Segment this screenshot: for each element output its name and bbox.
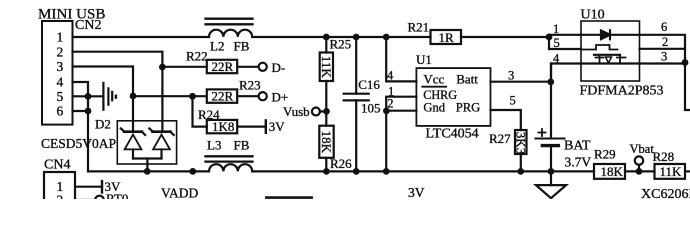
- svg-text:L2: L2: [210, 39, 224, 54]
- power 3V bar (R24): [265, 120, 267, 132]
- diode D2 CESD5V0AP box: [117, 121, 176, 164]
- U10 body diode row: [581, 34, 601, 36]
- wire R21 to U10: [461, 36, 549, 38]
- U1 pin 2 Gnd: [386, 110, 416, 112]
- transistor U10 FDFMA2P853 box: [581, 21, 640, 81]
- svg-text:18K: 18K: [601, 164, 624, 179]
- wire R26 to rail: [325, 158, 327, 172]
- svg-text:BAT: BAT: [564, 139, 591, 154]
- connector CN4: [44, 172, 75, 206]
- wire R23 feed: [133, 95, 207, 97]
- D2 anode join and tap: [133, 157, 162, 159]
- svg-text:1K8: 1K8: [212, 119, 234, 134]
- node D-: [259, 63, 267, 71]
- svg-text:FDFMA2P853: FDFMA2P853: [580, 84, 664, 99]
- wire pin5 CN2: [73, 95, 89, 97]
- svg-text:2: 2: [57, 193, 64, 199]
- svg-text:18K: 18K: [319, 131, 334, 154]
- svg-text:U10: U10: [581, 7, 605, 22]
- node D+: [259, 92, 267, 100]
- svg-text:22R: 22R: [212, 88, 234, 103]
- junction R24 feed: [189, 93, 196, 100]
- D2 left anode lead: [132, 149, 134, 158]
- svg-text:3: 3: [661, 49, 667, 63]
- junction U1 Batt / battery column: [547, 79, 554, 86]
- junction D+ feed: [130, 93, 137, 100]
- svg-text:1R: 1R: [439, 30, 455, 45]
- U1 pin 1 CHRG: [386, 97, 416, 111]
- junction D- feed: [159, 64, 166, 71]
- svg-text:D2: D2: [95, 117, 111, 132]
- svg-text:2: 2: [57, 44, 64, 59]
- junction rail L3: [189, 168, 196, 175]
- svg-text:R22: R22: [186, 49, 208, 64]
- resistor R27 3K3: [515, 130, 527, 154]
- ground symbol (rotated): [102, 82, 104, 111]
- svg-text:3: 3: [57, 59, 64, 74]
- U10 bottom row: [581, 62, 640, 64]
- svg-text:5: 5: [57, 89, 64, 104]
- U10 body arrow: [606, 57, 612, 63]
- svg-text:3V: 3V: [269, 119, 286, 134]
- op-amp U1 LTC4054 box: [416, 68, 490, 126]
- U10 right column down: [685, 63, 690, 111]
- svg-text:L3: L3: [207, 137, 221, 152]
- U10 drain contact: [619, 55, 621, 64]
- svg-text:LTC4054: LTC4054: [426, 126, 479, 141]
- svg-text:2: 2: [387, 96, 393, 110]
- wire ground stub: [88, 95, 103, 97]
- wire R27 to rail: [520, 154, 522, 171]
- U10 pin2 stub: [640, 48, 686, 50]
- wire Vusb stub: [320, 110, 326, 112]
- svg-text:FB: FB: [234, 39, 250, 54]
- svg-text:D+: D+: [272, 90, 289, 105]
- junction Vusb divider: [323, 108, 330, 115]
- svg-text:R27: R27: [489, 131, 511, 146]
- wire top rail to R21: [252, 36, 430, 38]
- wire pin6 CN2: [73, 110, 89, 112]
- svg-text:R21: R21: [408, 20, 430, 35]
- svg-text:5: 5: [554, 36, 560, 50]
- battery BAT 3.7V: [550, 64, 552, 139]
- node Vusb: [312, 108, 320, 116]
- junction CN2 pin5: [85, 93, 92, 100]
- svg-text:4: 4: [553, 51, 560, 65]
- svg-text:RT0: RT0: [106, 191, 128, 199]
- node Vbat: [635, 156, 643, 164]
- wire R29 to Vbat node: [625, 170, 655, 172]
- junction U1 Gnd/CHRG: [383, 108, 390, 115]
- wire D2 left cathode: [132, 96, 134, 132]
- wire R28 to edge: [685, 170, 690, 172]
- junction rail R27: [517, 168, 524, 175]
- capacitor C16 105: [355, 37, 357, 94]
- junction rail R26: [323, 168, 330, 175]
- resistor R22 22R: [207, 60, 237, 73]
- U10 source contact: [599, 55, 601, 64]
- U1 pin 4 Vcc: [386, 37, 416, 81]
- ground (triangle under battery): [550, 171, 552, 185]
- svg-text:Batt: Batt: [456, 71, 478, 86]
- connector CN2 MINI USB: [42, 21, 73, 125]
- svg-text:105: 105: [361, 101, 381, 116]
- resistor R24 1K8: [193, 96, 207, 126]
- svg-text:3: 3: [508, 68, 514, 82]
- D2 right diode: [153, 130, 171, 133]
- junction rail Vbat: [636, 168, 643, 175]
- node RT0: [95, 196, 104, 205]
- junction rail battery: [548, 168, 555, 175]
- U10 gate row: [581, 45, 618, 50]
- wire pin4 CN2: [73, 82, 89, 96]
- svg-text:Vbat: Vbat: [630, 142, 655, 156]
- svg-text:C16: C16: [358, 77, 380, 92]
- wire R25 to Vusb node: [325, 81, 327, 112]
- U1 pin 5 PRG: [491, 110, 521, 130]
- svg-text:CESD5V0AP: CESD5V0AP: [41, 136, 116, 151]
- U1 pin 3 Batt: [491, 81, 552, 83]
- U10 pin5 stub: [549, 48, 581, 50]
- junction rail C16: [353, 168, 360, 175]
- resistor R28 11K: [655, 164, 686, 179]
- resistor R23 22R: [207, 89, 237, 102]
- svg-text:11K: 11K: [319, 56, 334, 79]
- svg-text:1: 1: [57, 30, 64, 45]
- U10 pin3 stub: [640, 62, 686, 64]
- svg-text:6: 6: [57, 104, 64, 119]
- svg-text:4: 4: [387, 68, 394, 82]
- resistor R21 1R: [431, 30, 462, 44]
- svg-text:R28: R28: [653, 149, 675, 164]
- wire Vbat stub: [638, 165, 640, 169]
- svg-text:Vcc: Vcc: [423, 71, 444, 86]
- svg-text:U1: U1: [416, 52, 432, 67]
- D2 right anode lead: [160, 149, 162, 158]
- D2 left diode: [124, 130, 142, 133]
- resistor R26 18K: [325, 112, 327, 126]
- svg-text:XC6206P: XC6206P: [641, 187, 690, 199]
- svg-text:Vusb: Vusb: [283, 104, 310, 119]
- box edge (cropped component, bottom center): [266, 196, 311, 199]
- wire pin1 CN2 to L2: [73, 36, 210, 38]
- U1 CHRG overline: [422, 86, 446, 88]
- svg-text:R25: R25: [330, 36, 352, 51]
- U10 channel bar: [594, 54, 620, 56]
- junction top rail U1 Vcc: [383, 34, 390, 41]
- svg-text:VADD: VADD: [161, 185, 199, 199]
- svg-text:CN4: CN4: [44, 157, 70, 172]
- svg-text:3V: 3V: [408, 185, 425, 199]
- wire pin2 CN2: [73, 52, 163, 67]
- junction top rail R25: [323, 34, 330, 41]
- wire shield column down to rail: [87, 96, 89, 171]
- junction U10 pin3: [682, 59, 689, 66]
- wire U1 Gnd to rail: [385, 111, 387, 172]
- svg-text:Gnd: Gnd: [423, 100, 445, 114]
- wire bottom rail middle: [252, 170, 594, 172]
- wire pin3 CN2: [73, 67, 134, 97]
- power 3V bar (CN4): [101, 181, 103, 193]
- svg-text:3K3: 3K3: [513, 132, 528, 154]
- svg-text:22R: 22R: [212, 59, 234, 74]
- svg-text:4: 4: [57, 75, 64, 90]
- resistor R29 18K: [594, 164, 625, 179]
- svg-text:R23: R23: [239, 78, 261, 93]
- junction rail D2: [144, 168, 151, 175]
- wire R22 to D-: [237, 66, 258, 68]
- svg-text:1: 1: [553, 22, 559, 36]
- junction top rail C16: [353, 34, 360, 41]
- svg-text:3.7V: 3.7V: [565, 155, 592, 170]
- svg-text:FB: FB: [234, 137, 250, 152]
- wire R22 feed: [162, 66, 206, 68]
- svg-text:R29: R29: [594, 146, 616, 161]
- svg-text:11K: 11K: [660, 164, 683, 179]
- inductor L2 FB: [209, 30, 252, 37]
- svg-text:6: 6: [661, 20, 667, 34]
- inductor L3 FB: [209, 164, 252, 171]
- U10 pin4 stub: [551, 64, 581, 83]
- resistor R25 11K: [325, 37, 327, 53]
- svg-text:D-: D-: [272, 60, 286, 75]
- wire R23 to D+: [237, 95, 258, 97]
- junction top rail U10: [546, 34, 553, 41]
- junction rail U1 Gnd: [383, 168, 390, 175]
- svg-text:R26: R26: [330, 156, 352, 171]
- wire D2 right cathode: [161, 67, 163, 132]
- wire CN4 pin2 RT0: [75, 199, 95, 201]
- wire bottom rail left: [88, 170, 209, 172]
- junction CN2 pin6: [85, 108, 92, 115]
- svg-text:2: 2: [662, 35, 668, 49]
- wire R24 to 3V: [238, 125, 266, 127]
- svg-text:CN2: CN2: [75, 18, 101, 33]
- svg-text:5: 5: [510, 94, 516, 108]
- U10 pin6 stub: [640, 35, 686, 63]
- U10 pin1 stub and left column: [549, 34, 581, 36]
- wire CN4 pin1 to 3V: [75, 186, 102, 188]
- svg-text:PRG: PRG: [456, 100, 481, 114]
